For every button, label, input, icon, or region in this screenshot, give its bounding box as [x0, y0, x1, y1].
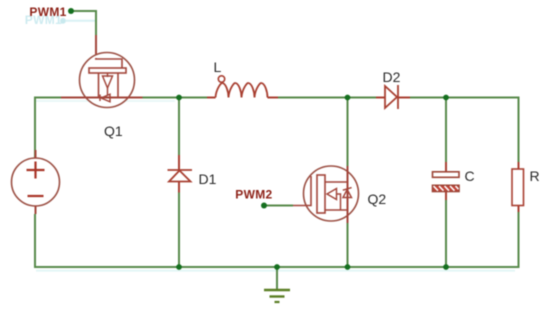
wire [445, 200, 447, 268]
node C [443, 95, 449, 101]
wire [518, 212, 520, 267]
transistor Q2 [293, 166, 359, 223]
wire [347, 223, 349, 267]
svg-text:C: C [465, 168, 475, 184]
resistor R [512, 162, 524, 212]
ground [264, 267, 290, 302]
node E [274, 264, 280, 270]
svg-text:R: R [530, 168, 540, 184]
voltage source [12, 150, 60, 214]
inductor L [207, 76, 278, 98]
svg-text:PWM1: PWM1 [29, 5, 66, 19]
wire [178, 98, 180, 157]
wire [347, 98, 349, 167]
node F [345, 264, 351, 270]
svg-text:D2: D2 [383, 69, 401, 85]
wire [71, 11, 96, 35]
wire [95, 35, 97, 59]
svg-text:D1: D1 [199, 171, 217, 187]
wire [445, 98, 447, 163]
node D [176, 264, 182, 270]
diode D1 [168, 155, 193, 193]
svg-text:PWM2: PWM2 [235, 188, 272, 202]
node G [443, 264, 449, 270]
wire [178, 192, 180, 267]
capacitor C [433, 162, 460, 200]
node PWM2 [261, 203, 267, 209]
wire [142, 97, 208, 99]
svg-text:L: L [214, 59, 222, 75]
svg-text:Q1: Q1 [104, 123, 123, 139]
wire [34, 98, 62, 159]
wire [34, 214, 520, 268]
svg-text:Q2: Q2 [368, 191, 387, 207]
node A [176, 95, 182, 101]
wire [409, 97, 519, 163]
wire [277, 97, 377, 99]
node PWM1 [68, 8, 74, 14]
wire [264, 205, 293, 207]
node B [345, 95, 351, 101]
diode D2 [376, 85, 410, 109]
transistor Q1 [61, 53, 143, 108]
